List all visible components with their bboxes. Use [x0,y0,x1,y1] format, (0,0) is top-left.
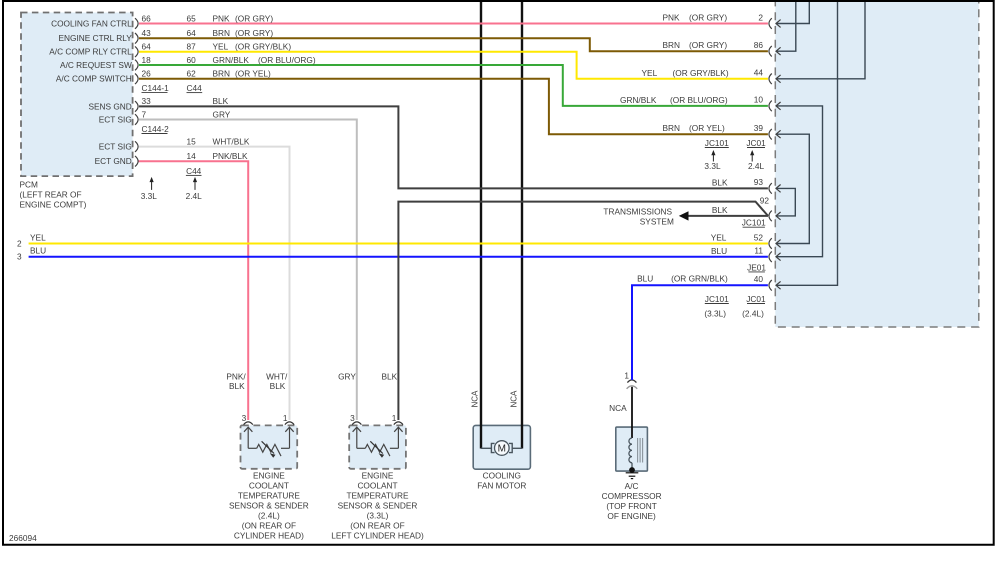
svg-text:40: 40 [754,274,764,284]
svg-text:LEFT CYLINDER HEAD): LEFT CYLINDER HEAD) [331,531,424,541]
svg-text:COOLANT: COOLANT [249,481,289,491]
svg-text:3: 3 [350,413,355,423]
svg-text:87: 87 [187,42,197,52]
svg-text:(OR GRN/BLK): (OR GRN/BLK) [671,273,728,283]
svg-text:BLU: BLU [711,246,727,256]
svg-text:FAN MOTOR: FAN MOTOR [477,481,526,491]
svg-text:(OR GRY): (OR GRY) [235,28,273,38]
svg-text:BLK: BLK [712,177,728,187]
svg-text:ECT SIG: ECT SIG [99,142,132,152]
svg-text:2: 2 [758,12,763,22]
svg-text:GRN/BLK: GRN/BLK [213,55,250,65]
svg-text:OF ENGINE): OF ENGINE) [607,511,656,521]
svg-text:JC101: JC101 [705,294,729,304]
svg-text:SENSOR & SENDER: SENSOR & SENDER [229,501,309,511]
svg-text:TEMPERATURE: TEMPERATURE [238,491,301,501]
svg-text:14: 14 [187,151,197,161]
svg-text:M: M [498,444,506,455]
svg-text:A/C REQUEST SW: A/C REQUEST SW [60,60,132,70]
svg-text:JC101: JC101 [742,218,766,228]
svg-text:NCA: NCA [609,403,627,413]
svg-text:COOLING: COOLING [483,471,521,481]
svg-text:44: 44 [754,68,764,78]
svg-text:(ON REAR OF: (ON REAR OF [350,521,404,531]
svg-text:SENS GND: SENS GND [88,101,131,111]
svg-text:2: 2 [17,239,22,249]
svg-text:64: 64 [142,42,152,52]
svg-text:PNK/BLK: PNK/BLK [213,151,249,161]
svg-text:A/C COMP SWITCH: A/C COMP SWITCH [56,74,132,84]
svg-text:BLK: BLK [381,372,397,382]
svg-text:3.3L: 3.3L [704,161,721,171]
svg-text:BRN: BRN [213,28,231,38]
svg-text:10: 10 [754,95,764,105]
svg-text:1: 1 [624,371,629,381]
svg-text:(OR GRY/BLK): (OR GRY/BLK) [235,42,291,52]
svg-text:BLU: BLU [30,246,46,256]
svg-text:86: 86 [754,40,764,50]
svg-text:C144-1: C144-1 [142,83,170,93]
svg-text:BRN: BRN [663,40,681,50]
svg-text:66: 66 [142,13,152,23]
svg-text:NCA: NCA [471,390,480,408]
svg-text:C44: C44 [186,166,202,176]
svg-text:1: 1 [392,413,397,423]
svg-text:ENGINE COMPT): ENGINE COMPT) [20,200,87,210]
svg-text:11: 11 [754,246,763,256]
svg-text:65: 65 [187,13,197,23]
svg-text:ENGINE: ENGINE [253,471,285,481]
svg-text:64: 64 [187,28,197,38]
svg-text:ENGINE: ENGINE [362,471,394,481]
svg-text:(OR BLU/ORG): (OR BLU/ORG) [670,95,728,105]
svg-text:C144-2: C144-2 [142,124,170,134]
svg-text:BRN: BRN [213,69,231,79]
svg-text:BLU: BLU [637,273,653,283]
svg-text:ENGINE CTRL RLY: ENGINE CTRL RLY [58,33,132,43]
svg-text:93: 93 [754,177,764,187]
svg-text:(TOP FRONT: (TOP FRONT [606,501,656,511]
svg-text:18: 18 [142,55,152,65]
svg-text:JE01: JE01 [747,262,766,272]
svg-text:62: 62 [187,69,197,79]
svg-text:PNK: PNK [663,13,681,23]
svg-text:SENSOR & SENDER: SENSOR & SENDER [338,501,418,511]
svg-text:COMPRESSOR: COMPRESSOR [602,491,662,501]
svg-text:26: 26 [142,69,152,79]
svg-text:2.4L: 2.4L [186,191,203,201]
svg-text:NCA: NCA [510,390,519,408]
svg-text:(3.3L): (3.3L) [704,309,726,319]
svg-text:1: 1 [283,413,288,423]
svg-text:60: 60 [187,55,197,65]
svg-text:ECT SIG: ECT SIG [99,114,132,124]
svg-text:(OR YEL): (OR YEL) [689,123,725,133]
svg-text:52: 52 [754,232,764,242]
svg-text:2.4L: 2.4L [748,161,765,171]
svg-text:(2.4L): (2.4L) [742,309,764,319]
svg-text:3: 3 [17,252,22,262]
svg-text:(ON REAR OF: (ON REAR OF [242,521,296,531]
svg-text:PNK: PNK [213,13,231,23]
svg-text:CYLINDER HEAD): CYLINDER HEAD) [234,531,304,541]
svg-text:(OR YEL): (OR YEL) [235,69,271,79]
svg-text:7: 7 [142,109,147,119]
svg-text:BRN: BRN [663,123,681,133]
svg-text:COOLANT: COOLANT [357,481,397,491]
svg-text:266094: 266094 [9,533,37,543]
svg-text:YEL: YEL [213,42,229,52]
svg-text:C44: C44 [187,83,203,93]
svg-text:YEL: YEL [711,233,727,243]
svg-text:39: 39 [754,123,764,133]
svg-text:(OR GRY): (OR GRY) [235,13,273,23]
svg-text:TEMPERATURE: TEMPERATURE [346,491,409,501]
svg-text:3.3L: 3.3L [141,191,158,201]
svg-text:(OR GRY): (OR GRY) [689,40,727,50]
svg-text:WHT/BLK: WHT/BLK [213,136,250,146]
svg-text:YEL: YEL [642,68,658,78]
svg-text:YEL: YEL [30,232,46,242]
svg-text:GRY: GRY [213,109,231,119]
svg-text:43: 43 [142,28,152,38]
svg-text:BLK: BLK [712,205,728,215]
svg-text:GRN/BLK: GRN/BLK [620,95,657,105]
svg-text:(OR BLU/ORG): (OR BLU/ORG) [258,55,316,65]
svg-text:JC101: JC101 [705,138,729,148]
svg-text:33: 33 [142,96,152,106]
svg-text:(3.3L): (3.3L) [367,511,389,521]
svg-text:ECT GND: ECT GND [95,156,132,166]
svg-text:JC01: JC01 [746,294,766,304]
svg-text:PCM: PCM [20,180,39,190]
svg-text:(LEFT REAR OF: (LEFT REAR OF [20,190,82,200]
svg-text:TRANSMISSIONS: TRANSMISSIONS [603,207,672,217]
svg-text:(OR GRY): (OR GRY) [689,13,727,23]
svg-text:BLK: BLK [270,381,286,391]
svg-text:BLK: BLK [213,96,229,106]
svg-text:15: 15 [187,136,197,146]
svg-text:JC01: JC01 [746,138,766,148]
svg-text:COOLING FAN CTRL: COOLING FAN CTRL [51,18,132,28]
svg-text:(OR GRY/BLK): (OR GRY/BLK) [673,68,729,78]
svg-text:BLK: BLK [229,381,245,391]
svg-text:3: 3 [242,413,247,423]
svg-text:(2.4L): (2.4L) [258,511,280,521]
svg-text:SYSTEM: SYSTEM [640,217,674,227]
svg-text:92: 92 [760,196,770,206]
svg-text:A/C: A/C [625,481,639,491]
svg-text:GRY: GRY [338,372,356,382]
svg-text:A/C COMP RLY CTRL: A/C COMP RLY CTRL [49,47,132,57]
